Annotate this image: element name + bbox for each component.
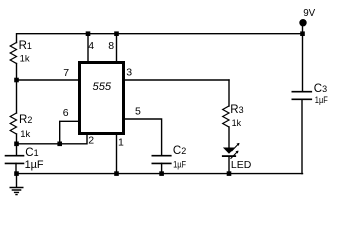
- svg-text:3: 3: [126, 66, 132, 78]
- svg-text:R1: R1: [19, 40, 32, 52]
- svg-text:1µF: 1µF: [25, 159, 44, 171]
- svg-text:4: 4: [88, 40, 94, 52]
- svg-text:LED: LED: [231, 159, 252, 171]
- svg-text:5: 5: [135, 105, 141, 117]
- svg-text:R2: R2: [19, 114, 32, 126]
- svg-text:C3: C3: [314, 83, 327, 95]
- svg-text:1: 1: [118, 137, 124, 149]
- svg-text:1k: 1k: [20, 129, 31, 139]
- svg-text:R3: R3: [230, 104, 243, 116]
- svg-text:7: 7: [63, 67, 69, 79]
- svg-text:1k: 1k: [20, 54, 31, 64]
- svg-text:2: 2: [88, 135, 94, 147]
- svg-text:8: 8: [108, 40, 114, 52]
- svg-text:C1: C1: [25, 147, 38, 159]
- svg-text:C2: C2: [173, 145, 186, 157]
- svg-text:1µF: 1µF: [315, 95, 328, 105]
- svg-text:1k: 1k: [232, 118, 242, 128]
- svg-text:9V: 9V: [303, 7, 315, 19]
- svg-text:1µF: 1µF: [173, 159, 186, 169]
- svg-text:6: 6: [63, 107, 69, 119]
- svg-text:555: 555: [93, 81, 112, 93]
